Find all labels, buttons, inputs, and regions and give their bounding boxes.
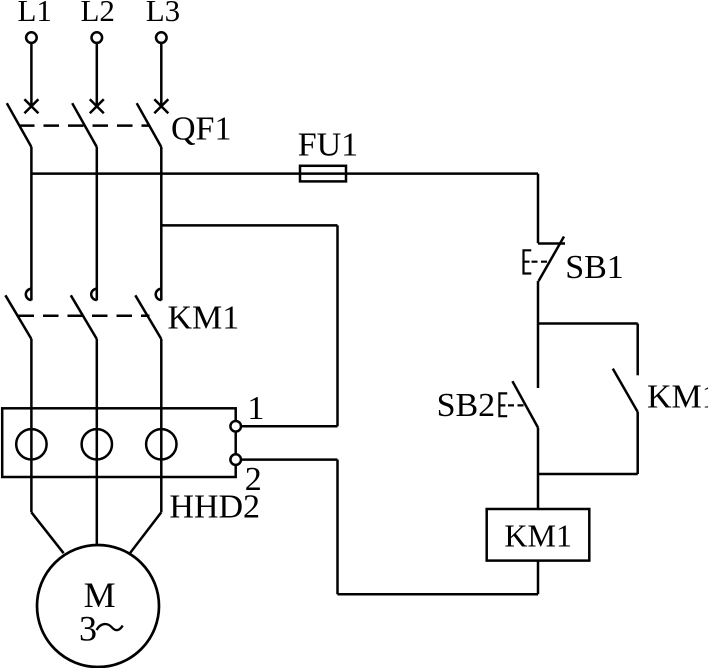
wire KM1 pole 2 to motor xyxy=(96,339,99,546)
wire parallel branch bottom xyxy=(538,473,638,476)
svg-text:KM1: KM1 xyxy=(168,300,240,337)
pushbutton SB1 blade xyxy=(539,237,564,282)
wire L1 to QF1 xyxy=(30,43,33,107)
wire control feed bus xyxy=(31,172,538,175)
svg-text:1: 1 xyxy=(247,390,264,427)
wire control return tap horizontal xyxy=(161,224,337,227)
pushbutton SB2 actuator dashed link xyxy=(508,404,524,406)
wire SB1 to SB2 xyxy=(537,281,540,388)
terminal circle L1 xyxy=(26,32,37,43)
svg-text:FU1: FU1 xyxy=(298,127,358,164)
breaker QF1 pole 3 contact cross xyxy=(154,99,168,113)
breaker QF1 pole 3 blade xyxy=(137,103,162,147)
svg-text:L2: L2 xyxy=(81,0,115,28)
wire QF1 pole 2 to KM1 contact xyxy=(96,147,99,300)
wire QF1 pole 3 to KM1 contact xyxy=(160,147,163,300)
motor M circle xyxy=(37,545,159,667)
breaker QF1 pole 1 contact cross xyxy=(24,99,38,113)
contact KM1 auxiliary blade xyxy=(613,369,638,412)
motor tilde symbol xyxy=(97,624,123,630)
contactor KM1 linkage dashed line xyxy=(19,315,150,318)
contactor KM1 pole 1 blade xyxy=(5,295,31,339)
wire KM1 pole 3 to motor xyxy=(160,339,163,512)
terminal circle 2 xyxy=(230,454,241,465)
terminal circle L2 xyxy=(92,32,103,43)
wire L3 to QF1 xyxy=(160,43,163,107)
wire KM1 pole 1 to motor xyxy=(30,339,33,512)
wire L2 to QF1 xyxy=(96,43,99,107)
pushbutton SB1 actuator dashed link xyxy=(532,261,551,263)
wire terminal 2 to control return xyxy=(241,458,338,461)
svg-text:SB1: SB1 xyxy=(565,249,624,286)
wire motor lead 3 diagonal xyxy=(130,512,161,553)
wire motor lead 1 diagonal xyxy=(31,512,63,553)
pushbutton SB2 blade xyxy=(512,381,538,427)
wire coil to bottom xyxy=(537,561,540,595)
coil KM1 box xyxy=(487,509,590,561)
wire control return tap vertical xyxy=(336,225,339,426)
contactor KM1 pole 2 fixed contact arc xyxy=(91,289,97,300)
terminal circle L3 xyxy=(156,32,167,43)
wire branch to KM1 aux contact xyxy=(636,324,639,376)
wire QF1 pole 1 to KM1 contact xyxy=(30,147,33,300)
pushbutton SB1 fixed contact bar xyxy=(538,242,565,245)
wire terminal 1 to control xyxy=(241,425,338,428)
breaker QF1 linkage dashed line xyxy=(19,124,150,127)
contactor KM1 pole 2 blade xyxy=(71,295,97,339)
thermal relay HHD2 box xyxy=(2,408,236,477)
svg-text:3: 3 xyxy=(79,609,97,649)
breaker QF1 pole 1 blade xyxy=(7,103,32,147)
svg-text:SB2: SB2 xyxy=(437,387,496,424)
contactor KM1 pole 3 blade xyxy=(135,295,161,339)
breaker QF1 pole 2 contact cross xyxy=(90,99,104,113)
svg-text:HHD2: HHD2 xyxy=(169,489,260,526)
fuse FU1 body xyxy=(300,166,346,182)
svg-text:L3: L3 xyxy=(146,0,180,28)
svg-text:KM1: KM1 xyxy=(504,517,572,553)
wire bottom return horizontal xyxy=(338,593,539,596)
thermal relay heater circle 2 xyxy=(82,429,112,459)
svg-text:QF1: QF1 xyxy=(171,111,231,148)
contactor KM1 pole 3 fixed contact arc xyxy=(156,289,162,300)
pushbutton SB1 actuator E xyxy=(524,250,532,273)
wire return vertical to terminal 2 xyxy=(336,460,339,595)
wire KM1 aux contact bottom xyxy=(636,412,639,474)
breaker QF1 pole 2 blade xyxy=(72,103,97,147)
thermal relay heater circle 1 xyxy=(16,429,46,459)
thermal relay heater circle 3 xyxy=(146,429,176,459)
contactor KM1 pole 1 fixed contact arc xyxy=(26,289,32,300)
svg-text:L1: L1 xyxy=(18,0,52,28)
svg-text:KM1: KM1 xyxy=(647,379,708,416)
pushbutton SB2 actuator E xyxy=(499,393,507,416)
wire fuse to SB1 vertical xyxy=(537,174,540,244)
terminal circle 1 xyxy=(230,421,241,432)
wire SB2 to junction xyxy=(537,428,540,510)
wire parallel branch top xyxy=(538,322,638,325)
